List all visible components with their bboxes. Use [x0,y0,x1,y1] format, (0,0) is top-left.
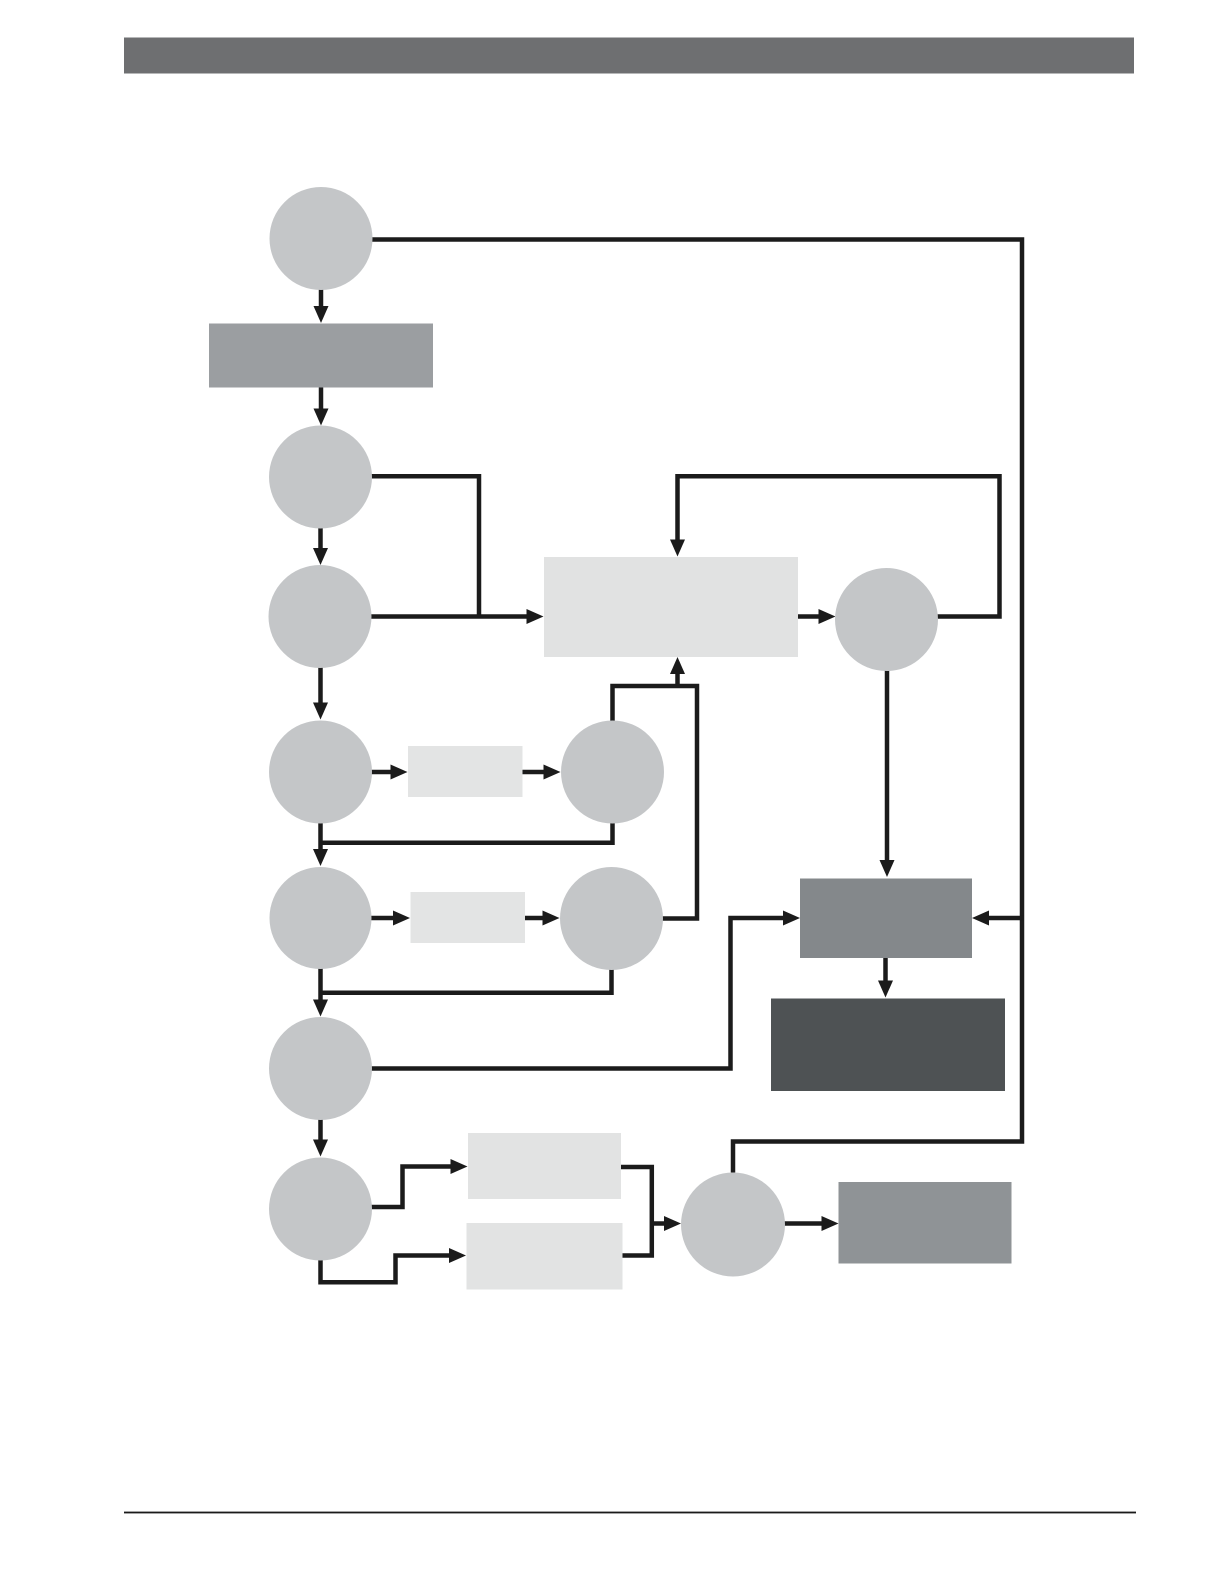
arrowhead into rect4 top [878,981,893,998]
arrowhead into rect5 left [451,1159,468,1174]
wire: S2 to circle8 [525,916,544,921]
wire: circle1 right across, long vertical down, left to circle11 top [370,240,1022,1173]
process circle 3 [269,565,372,668]
process circle 4 [835,568,938,671]
process circle 6 [561,721,664,824]
medium box rect7 [839,1182,1012,1264]
arrowhead into rect1 top [314,306,329,323]
wire: circle4 bottom long arrow to rect3 [885,668,890,861]
dark box rect4 [771,999,1005,1092]
arrowhead into circle3 top [313,548,328,565]
arrowhead into circle4 left [819,609,836,624]
wire: merge circle6 and circle5 down toward circle7 [321,820,613,850]
arrowhead into big box top (loop) [670,540,685,557]
wire: branch arrow shaft up into big box bottom [675,673,680,684]
light box rect5 [468,1133,621,1199]
light box rect6 [467,1223,623,1290]
arrowhead into circle2 top [314,409,329,426]
process circle 5 [269,721,372,824]
wire: circle10 lower elbow to rect6 [321,1256,451,1283]
wire: circle2 right elbow down to circle3 output line [368,476,479,616]
wire: circle7 to small box S2 [369,916,394,921]
arrowhead into circle10 top [313,1140,328,1157]
process box rect1 [209,324,433,388]
arrowhead into S2 left [393,911,410,926]
wire: circle3 right into big box rect2 [368,614,528,619]
arrowhead into rect7 left [822,1216,839,1231]
wire: big box right to circle4 [798,614,820,619]
wire: merge circle8 and circle7 down toward circle9 [321,967,612,1001]
wire: merge into circle11 [652,1221,665,1226]
arrowhead into circle6 left [544,765,561,780]
footer rule [124,1512,1136,1514]
big light box rect2 [544,557,798,657]
process circle 7 [270,867,372,969]
arrowhead into circle5 top [313,703,328,720]
process circle 9 [269,1017,372,1120]
wire: circle9 right, up, into rect3 left [368,918,784,1069]
arrowhead into S1 left [391,765,408,780]
arrowhead into circle11 left [664,1216,681,1231]
wire: circle9 bottom to circle10 [318,1118,323,1141]
arrowhead into rect3 left [783,911,800,926]
small light box S1 [408,746,523,797]
wire: rect3 bottom to rect4 [883,958,888,982]
wire: rect1 bottom to circle2 [319,387,324,410]
arrowhead into big box left [527,609,544,624]
process circle 8 [560,867,663,970]
wire: circle10 upper elbow to rect5 [369,1167,452,1208]
arrowhead into circle9 top [313,1000,328,1017]
wire: circle3 bottom to circle5 [318,666,323,704]
arrowhead into circle8 left [543,911,560,926]
process circle 1 [270,187,373,290]
wire: circle6 top up, across, down to circle8 right output [613,686,698,919]
arrowhead into big box bottom (pointing up) [670,657,685,674]
arrowhead into rect6 left [449,1248,466,1263]
header bar [124,38,1134,74]
process circle 10 [269,1158,372,1261]
process circle 11 [681,1173,785,1277]
wire: rect5 and rect6 outputs merging [621,1167,652,1256]
medium box rect3 [800,879,972,959]
process circle 2 [269,426,372,529]
wire: circle11 right to rect7 [783,1221,823,1226]
small light box S2 [411,892,526,943]
wire: branch from long vertical into rect3 right side [988,916,1024,921]
arrowhead into rect3 right (pointing left) [972,911,989,926]
wire: circle5 to small box S1 [369,770,392,775]
arrowhead into circle7 top [313,849,328,866]
arrowhead into rect3 top [880,860,895,877]
wire: circle2 bottom to circle3 [318,526,323,549]
wire: circle4 loop up and into big box top [678,476,1000,616]
wire: circle1 bottom to rect1 [319,286,324,307]
wire: S1 to circle6 [523,770,545,775]
